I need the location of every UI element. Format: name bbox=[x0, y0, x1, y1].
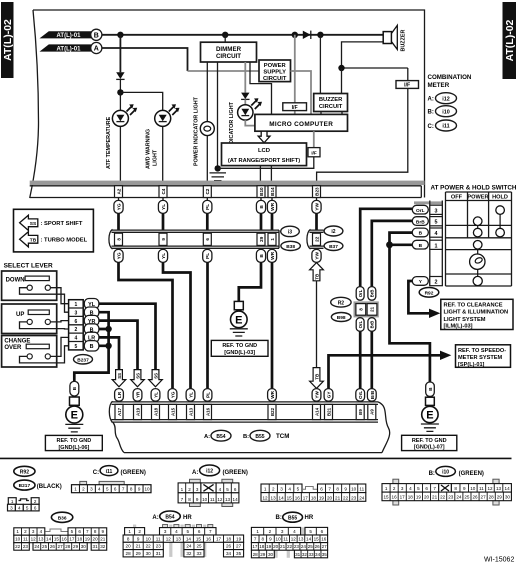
svg-text:YL: YL bbox=[189, 392, 194, 398]
svg-text:15: 15 bbox=[314, 537, 320, 542]
junction dot internal ground bbox=[215, 165, 221, 171]
pin B10 bbox=[257, 186, 265, 198]
svg-text:B:: B: bbox=[276, 515, 282, 521]
wire LCD I/F to internal ground bbox=[218, 157, 314, 169]
svg-text:B:: B: bbox=[428, 110, 434, 116]
LCD display bbox=[222, 143, 307, 166]
svg-text:22: 22 bbox=[146, 544, 152, 549]
svg-text:9: 9 bbox=[137, 536, 140, 541]
svg-text:8: 8 bbox=[262, 537, 265, 542]
svg-text:REF. TO SPEEDO-: REF. TO SPEEDO- bbox=[458, 348, 506, 354]
svg-text:27: 27 bbox=[322, 544, 328, 549]
svg-text:E: E bbox=[235, 314, 242, 326]
junction dot power supply bbox=[292, 32, 298, 38]
svg-text:1: 1 bbox=[11, 499, 14, 504]
wire dimmer supply to micro computer bbox=[250, 62, 272, 114]
svg-text:(GREEN): (GREEN) bbox=[459, 471, 484, 477]
svg-text:16: 16 bbox=[321, 537, 327, 542]
svg-text:16: 16 bbox=[62, 537, 68, 542]
svg-text:PL: PL bbox=[205, 204, 211, 210]
svg-text:C:: C: bbox=[428, 124, 434, 130]
svg-text:12: 12 bbox=[217, 497, 223, 502]
svg-text:1: 1 bbox=[128, 529, 131, 534]
svg-text:B: B bbox=[259, 254, 265, 258]
sport shift arrow SS on YR bbox=[131, 370, 145, 387]
junction dot dimmer bbox=[222, 32, 228, 38]
svg-text:B: B bbox=[419, 243, 423, 249]
connector A:i12 label bbox=[192, 465, 248, 476]
switch contacts bbox=[470, 206, 505, 286]
svg-text:6: 6 bbox=[75, 319, 78, 325]
svg-text:1: 1 bbox=[270, 238, 275, 241]
power supply circuit U2 bbox=[259, 60, 291, 82]
svg-text:2: 2 bbox=[24, 529, 27, 534]
svg-text:21: 21 bbox=[432, 495, 438, 500]
svg-text:SS: SS bbox=[135, 373, 140, 379]
svg-text:4: 4 bbox=[175, 529, 178, 534]
wire label B bbox=[256, 200, 265, 213]
connector flag AT(L)-01 B bbox=[40, 29, 102, 40]
svg-text:B10: B10 bbox=[259, 187, 264, 196]
svg-text:5: 5 bbox=[309, 529, 312, 534]
svg-text:REF. TO GND: REF. TO GND bbox=[222, 343, 257, 349]
svg-text:BrB: BrB bbox=[370, 290, 375, 298]
connector B36 oval bbox=[51, 512, 72, 522]
svg-text:B21: B21 bbox=[326, 407, 331, 416]
svg-text:11: 11 bbox=[156, 536, 161, 541]
svg-text:24: 24 bbox=[301, 544, 307, 549]
svg-text:19: 19 bbox=[85, 537, 91, 542]
wire label B ground right bbox=[426, 382, 435, 396]
svg-text:2: 2 bbox=[393, 486, 396, 491]
svg-text:29: 29 bbox=[136, 551, 142, 556]
svg-text:9: 9 bbox=[138, 487, 141, 492]
svg-text:30: 30 bbox=[505, 495, 511, 500]
svg-text:12: 12 bbox=[262, 495, 268, 500]
svg-text:8: 8 bbox=[130, 487, 133, 492]
svg-text:11: 11 bbox=[359, 487, 364, 492]
svg-text:34: 34 bbox=[315, 552, 321, 557]
svg-text:19: 19 bbox=[266, 544, 272, 549]
svg-text:31: 31 bbox=[295, 552, 301, 557]
junction dot buzzer return bbox=[338, 65, 344, 71]
svg-text:28: 28 bbox=[253, 552, 259, 557]
svg-text:7: 7 bbox=[86, 529, 89, 534]
svg-text:5: 5 bbox=[417, 486, 420, 491]
svg-text:13: 13 bbox=[496, 486, 502, 491]
wires pills to intermediate connector bbox=[119, 213, 317, 230]
svg-text:YW: YW bbox=[315, 391, 320, 399]
turbo arrow TB lower bbox=[310, 368, 324, 389]
svg-text:TB: TB bbox=[30, 238, 37, 244]
svg-text:B237: B237 bbox=[77, 357, 89, 363]
svg-text:17: 17 bbox=[252, 544, 258, 549]
svg-text:2: 2 bbox=[188, 487, 191, 492]
ref box clearance light bbox=[441, 299, 513, 329]
svg-text:6: 6 bbox=[234, 487, 237, 492]
svg-text:17: 17 bbox=[400, 495, 406, 500]
svg-text:ATF TEMPERATURE: ATF TEMPERATURE bbox=[106, 116, 112, 169]
svg-text:12: 12 bbox=[31, 537, 37, 542]
svg-text:i3: i3 bbox=[288, 230, 292, 236]
svg-text:I/F: I/F bbox=[404, 83, 410, 89]
svg-text:YG: YG bbox=[171, 391, 176, 398]
svg-text:8: 8 bbox=[94, 529, 97, 534]
buzzer BZ1 bbox=[383, 25, 406, 51]
svg-text:PL: PL bbox=[205, 253, 211, 259]
svg-text:OrL: OrL bbox=[416, 208, 425, 214]
svg-text:4: 4 bbox=[40, 529, 43, 534]
svg-text:YR: YR bbox=[136, 391, 141, 398]
svg-text:15: 15 bbox=[196, 536, 202, 541]
svg-text:C4: C4 bbox=[161, 188, 166, 194]
svg-text:4: 4 bbox=[293, 529, 296, 534]
svg-text:C:: C: bbox=[93, 470, 99, 476]
svg-text:CHANGE: CHANGE bbox=[4, 339, 30, 345]
pin C4 bbox=[159, 186, 167, 198]
svg-text:PL: PL bbox=[206, 392, 211, 398]
svg-text:21: 21 bbox=[280, 544, 286, 549]
svg-text:26: 26 bbox=[50, 544, 56, 549]
svg-text:: TURBO MODEL: : TURBO MODEL bbox=[41, 237, 88, 243]
svg-text:YL: YL bbox=[161, 253, 167, 259]
svg-text:22: 22 bbox=[314, 236, 319, 242]
svg-text:SS: SS bbox=[153, 373, 158, 379]
svg-text:B98: B98 bbox=[337, 315, 346, 321]
wire dimmer to power indicator lamp bbox=[206, 62, 208, 122]
svg-text:32: 32 bbox=[100, 544, 106, 549]
wire YW turbo section bbox=[316, 281, 318, 368]
wire label WR lower bbox=[267, 249, 276, 262]
svg-text:B:: B: bbox=[243, 434, 249, 440]
svg-text:31: 31 bbox=[156, 551, 162, 556]
svg-text:MICRO COMPUTER: MICRO COMPUTER bbox=[269, 121, 333, 128]
svg-text:AT(L)-01: AT(L)-01 bbox=[57, 46, 82, 52]
wire A (illumination) bbox=[102, 48, 188, 71]
svg-text:POWER INDICATOR LIGHT: POWER INDICATOR LIGHT bbox=[194, 96, 200, 166]
svg-text:18: 18 bbox=[259, 544, 265, 549]
svg-text:[SP(L)-01]: [SP(L)-01] bbox=[458, 362, 485, 368]
svg-text:i10: i10 bbox=[442, 109, 450, 115]
svg-text:7: 7 bbox=[433, 486, 436, 491]
svg-text:POWER: POWER bbox=[264, 63, 287, 69]
svg-text:21: 21 bbox=[136, 544, 142, 549]
svg-text:i12: i12 bbox=[206, 469, 213, 475]
svg-text:B: B bbox=[72, 386, 78, 390]
svg-text:HR: HR bbox=[305, 515, 314, 521]
svg-text:3: 3 bbox=[32, 529, 35, 534]
svg-text:8: 8 bbox=[336, 487, 339, 492]
switch table grid bbox=[446, 192, 512, 286]
svg-text:B: B bbox=[428, 387, 434, 391]
svg-text:B: B bbox=[259, 205, 265, 209]
svg-text:METER SYSTEM: METER SYSTEM bbox=[458, 355, 502, 361]
svg-text:3: 3 bbox=[164, 529, 167, 534]
svg-text:3: 3 bbox=[401, 486, 404, 491]
wire label YW lower bbox=[312, 249, 321, 262]
connector B:i10 label bbox=[429, 466, 484, 477]
svg-text:A:: A: bbox=[428, 97, 434, 103]
svg-text:34: 34 bbox=[226, 551, 232, 556]
ground meter internal bbox=[210, 173, 227, 181]
svg-text:CIRCUIT: CIRCUIT bbox=[319, 104, 343, 110]
TCM connector strip bbox=[109, 401, 378, 422]
svg-text:4: 4 bbox=[219, 487, 222, 492]
svg-text:HR: HR bbox=[183, 515, 192, 521]
svg-text:YG: YG bbox=[116, 203, 122, 210]
svg-text:LCD: LCD bbox=[258, 148, 270, 154]
svg-text:23: 23 bbox=[351, 495, 357, 500]
wire label B pill 4 bbox=[412, 228, 428, 237]
svg-text:11: 11 bbox=[23, 537, 28, 542]
svg-text:SELECT LEVER: SELECT LEVER bbox=[4, 263, 53, 270]
svg-text:25: 25 bbox=[42, 544, 48, 549]
svg-text:A9: A9 bbox=[370, 409, 375, 415]
LED ATF temperature bbox=[112, 104, 137, 126]
TCM pills row bbox=[115, 389, 124, 402]
svg-text:10: 10 bbox=[15, 537, 21, 542]
connector i12 pinout bbox=[178, 479, 239, 506]
wire PL to TCM A16 bbox=[206, 262, 209, 388]
svg-text:18: 18 bbox=[77, 537, 83, 542]
wire to AWD warning light bbox=[120, 92, 162, 110]
legend box sport shift / turbo model bbox=[14, 209, 94, 252]
svg-text:27: 27 bbox=[481, 495, 487, 500]
svg-text:(GREEN): (GREEN) bbox=[121, 470, 146, 476]
svg-text:16: 16 bbox=[206, 536, 212, 541]
wire select LR to TCM A17 bbox=[99, 337, 119, 369]
svg-text:BrB: BrB bbox=[370, 390, 375, 399]
svg-text:25: 25 bbox=[464, 495, 470, 500]
svg-text:B: B bbox=[419, 231, 423, 237]
svg-text:19: 19 bbox=[416, 495, 422, 500]
svg-text:1: 1 bbox=[16, 529, 19, 534]
svg-text:6: 6 bbox=[205, 238, 210, 241]
connector B237 oval bbox=[74, 355, 93, 364]
svg-text:9: 9 bbox=[463, 486, 466, 491]
connector flag AT(L)-01 A bbox=[40, 42, 102, 53]
wire select YR to TCM A19 bbox=[99, 321, 138, 370]
svg-text:(AT RANGE/SPORT SHIFT): (AT RANGE/SPORT SHIFT) bbox=[228, 158, 300, 164]
svg-text:15: 15 bbox=[54, 537, 60, 542]
svg-text:B55: B55 bbox=[288, 515, 297, 521]
svg-text:UP: UP bbox=[16, 312, 24, 318]
wire dimmer to internal ground bbox=[217, 62, 219, 168]
svg-text:13: 13 bbox=[271, 495, 277, 500]
svg-text:B55: B55 bbox=[255, 434, 264, 440]
svg-text:TB: TB bbox=[314, 274, 319, 280]
svg-text:4: 4 bbox=[98, 487, 101, 492]
svg-text:25: 25 bbox=[196, 544, 202, 549]
TCM body bubble bbox=[113, 402, 390, 453]
svg-text:1: 1 bbox=[256, 529, 259, 534]
wire to ATF LED bbox=[119, 92, 121, 110]
connector B217 pinout bbox=[8, 498, 40, 511]
wire label YW bbox=[312, 200, 321, 213]
svg-text:METER: METER bbox=[428, 82, 450, 89]
svg-text:32: 32 bbox=[186, 551, 192, 556]
svg-text:B: B bbox=[90, 344, 94, 350]
svg-text:A14: A14 bbox=[314, 407, 319, 416]
TCM label bbox=[204, 430, 289, 441]
svg-text:4: 4 bbox=[75, 336, 78, 342]
svg-text:13: 13 bbox=[298, 537, 304, 542]
junction dot buzzer circuit bbox=[317, 32, 323, 38]
svg-text:i2: i2 bbox=[331, 229, 335, 235]
svg-text:35: 35 bbox=[236, 551, 242, 556]
dimmer circuit U1 bbox=[201, 35, 257, 62]
wire dimmer to hold indicator bbox=[244, 62, 246, 93]
svg-text:21: 21 bbox=[370, 306, 375, 311]
svg-text:i10: i10 bbox=[442, 470, 449, 476]
svg-text:A:: A: bbox=[152, 515, 158, 521]
svg-text:i11: i11 bbox=[442, 124, 449, 130]
svg-text:[GND(L)-03]: [GND(L)-03] bbox=[224, 350, 255, 356]
svg-text:AT POWER & HOLD SWITCH: AT POWER & HOLD SWITCH bbox=[431, 184, 517, 191]
svg-text:16: 16 bbox=[392, 495, 398, 500]
connector R92 oval bottom bbox=[14, 466, 35, 476]
svg-text:22: 22 bbox=[15, 544, 21, 549]
junction dot ATF branch bbox=[117, 32, 123, 38]
svg-text:18: 18 bbox=[226, 536, 232, 541]
svg-text:YW: YW bbox=[314, 203, 320, 211]
svg-text:1: 1 bbox=[75, 302, 78, 308]
svg-text:29: 29 bbox=[497, 495, 503, 500]
connector B37/B98 pinout bbox=[261, 484, 366, 501]
svg-text:6: 6 bbox=[425, 486, 428, 491]
junction dot B pin2 bbox=[105, 326, 111, 332]
svg-text:C2: C2 bbox=[205, 188, 210, 194]
svg-text:CIRCUIT: CIRCUIT bbox=[216, 53, 241, 60]
wire label YL bbox=[158, 200, 167, 213]
svg-text:HOLD: HOLD bbox=[492, 195, 508, 201]
connector R2 oval bbox=[331, 297, 351, 307]
svg-text:OrL: OrL bbox=[358, 320, 363, 328]
svg-text:28: 28 bbox=[489, 495, 495, 500]
svg-text:LIGHT & ILLUMINATION: LIGHT & ILLUMINATION bbox=[444, 310, 509, 316]
svg-text:REF. TO GND: REF. TO GND bbox=[57, 438, 92, 444]
svg-text:26: 26 bbox=[315, 544, 321, 549]
svg-text:4: 4 bbox=[409, 486, 412, 491]
svg-text:5: 5 bbox=[106, 487, 109, 492]
svg-text:20: 20 bbox=[273, 544, 279, 549]
svg-text:POWER: POWER bbox=[467, 195, 488, 201]
pin 8 bbox=[115, 233, 123, 245]
svg-text:18: 18 bbox=[408, 495, 414, 500]
svg-text:B217: B217 bbox=[19, 483, 31, 489]
svg-text:B54: B54 bbox=[216, 434, 225, 440]
gray bar above pin column bbox=[414, 201, 442, 204]
svg-text:20: 20 bbox=[327, 495, 333, 500]
svg-text:SS: SS bbox=[117, 373, 122, 379]
svg-text:8: 8 bbox=[188, 497, 191, 502]
svg-text:(GREEN): (GREEN) bbox=[223, 470, 248, 476]
wire Y pin2 to clearance light system bbox=[408, 281, 429, 313]
select lever CHANGE OVER switch bbox=[2, 336, 69, 368]
wire label WR bbox=[267, 200, 276, 213]
bottom section divider bbox=[0, 457, 512, 459]
svg-text:23: 23 bbox=[294, 544, 300, 549]
svg-text:13: 13 bbox=[38, 537, 44, 542]
svg-text:35: 35 bbox=[322, 552, 328, 557]
svg-text:29: 29 bbox=[259, 236, 264, 242]
svg-text:14: 14 bbox=[186, 536, 192, 541]
svg-text:14: 14 bbox=[505, 486, 511, 491]
svg-text:30: 30 bbox=[146, 551, 152, 556]
svg-text:A18: A18 bbox=[153, 407, 158, 416]
svg-text:7: 7 bbox=[209, 529, 212, 534]
ref box GND(L)-06 bbox=[45, 435, 102, 450]
svg-text:17: 17 bbox=[216, 536, 222, 541]
svg-text:A16: A16 bbox=[205, 407, 210, 416]
svg-text:23: 23 bbox=[448, 495, 454, 500]
svg-text:GY: GY bbox=[327, 392, 332, 399]
svg-text:6: 6 bbox=[198, 529, 201, 534]
wire micro to LCD I/F bbox=[313, 131, 315, 147]
ground terminal GND(L)-03 bbox=[230, 301, 248, 336]
wire label B pill 1 bbox=[412, 240, 428, 249]
svg-text:YL: YL bbox=[161, 204, 167, 210]
svg-text:8: 8 bbox=[454, 486, 457, 491]
connector A:B54 label bbox=[152, 511, 192, 522]
LED hold indicator light bbox=[238, 98, 262, 120]
svg-text:5: 5 bbox=[297, 487, 300, 492]
pin 29 bbox=[257, 233, 265, 245]
buzzer circuit U3 bbox=[314, 94, 348, 112]
pin 22 bbox=[313, 233, 321, 245]
wire select B common to ground GND(L)-06 bbox=[74, 312, 108, 381]
svg-text:4: 4 bbox=[18, 506, 21, 511]
svg-text:27: 27 bbox=[236, 544, 242, 549]
pin 3 bbox=[430, 205, 443, 214]
svg-text:B9: B9 bbox=[358, 409, 363, 415]
svg-text:6: 6 bbox=[321, 529, 324, 534]
svg-text:8: 8 bbox=[127, 536, 130, 541]
wire label BrB pill bbox=[412, 217, 428, 226]
svg-text:3: 3 bbox=[10, 506, 13, 511]
svg-text:21: 21 bbox=[100, 537, 106, 542]
svg-text:15: 15 bbox=[287, 495, 293, 500]
junction dot AWD branch bbox=[117, 89, 123, 95]
interface I/F box center bbox=[283, 103, 307, 111]
svg-text:30: 30 bbox=[268, 552, 274, 557]
wire label B ground bbox=[70, 381, 79, 396]
page label AT(L)-02 right bbox=[503, 2, 517, 79]
connector B:B55 label bbox=[276, 512, 314, 522]
meter connector strip bbox=[30, 186, 422, 198]
svg-text:28: 28 bbox=[65, 544, 71, 549]
svg-text:24: 24 bbox=[34, 544, 40, 549]
svg-text:24: 24 bbox=[186, 544, 192, 549]
wire label PL bbox=[203, 200, 212, 213]
svg-text:R92: R92 bbox=[20, 469, 29, 475]
svg-text:32: 32 bbox=[302, 552, 308, 557]
sport shift arrow SS on LR bbox=[112, 370, 126, 387]
svg-text:R2: R2 bbox=[338, 300, 345, 306]
svg-text:OrL: OrL bbox=[358, 391, 363, 399]
switch pin column bbox=[430, 201, 443, 286]
pin 4 bbox=[430, 228, 443, 237]
wire label YG bbox=[114, 200, 123, 213]
wire WR to TCM B22 bbox=[271, 262, 274, 388]
connector R2/B98 joint bbox=[355, 303, 377, 316]
wire ATF temperature branch bbox=[119, 35, 121, 73]
svg-text:10: 10 bbox=[276, 537, 282, 542]
svg-text:5: 5 bbox=[71, 529, 74, 534]
diode D2 ATF bbox=[116, 72, 124, 92]
pin C2 bbox=[203, 186, 211, 198]
svg-text:26: 26 bbox=[472, 495, 478, 500]
